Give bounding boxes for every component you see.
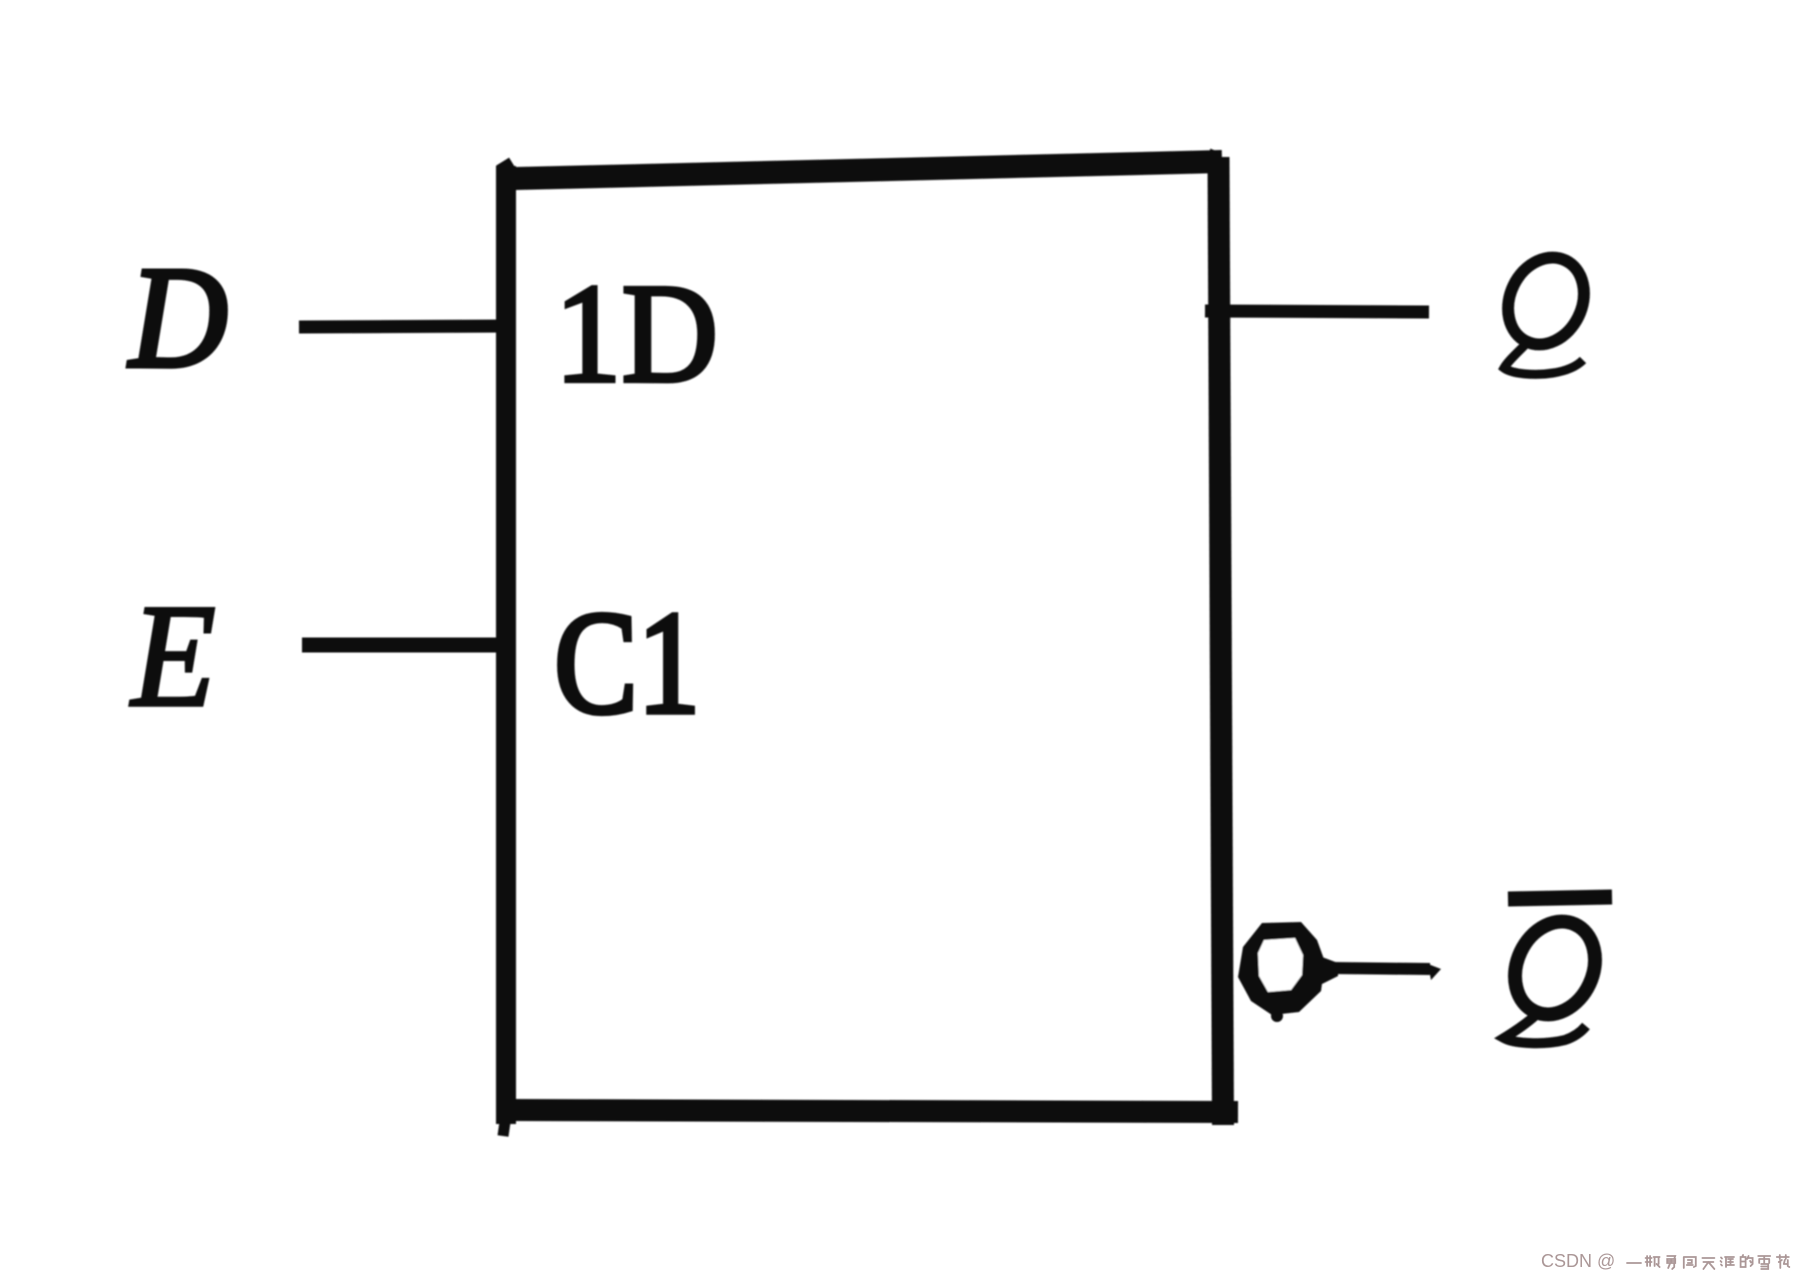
svg-text:E: E: [130, 574, 216, 737]
svg-text:1D: 1D: [555, 254, 719, 411]
svg-text:CSDN @: CSDN @: [1541, 1251, 1615, 1271]
svg-text:C1: C1: [554, 581, 700, 745]
svg-text:D: D: [128, 238, 228, 398]
